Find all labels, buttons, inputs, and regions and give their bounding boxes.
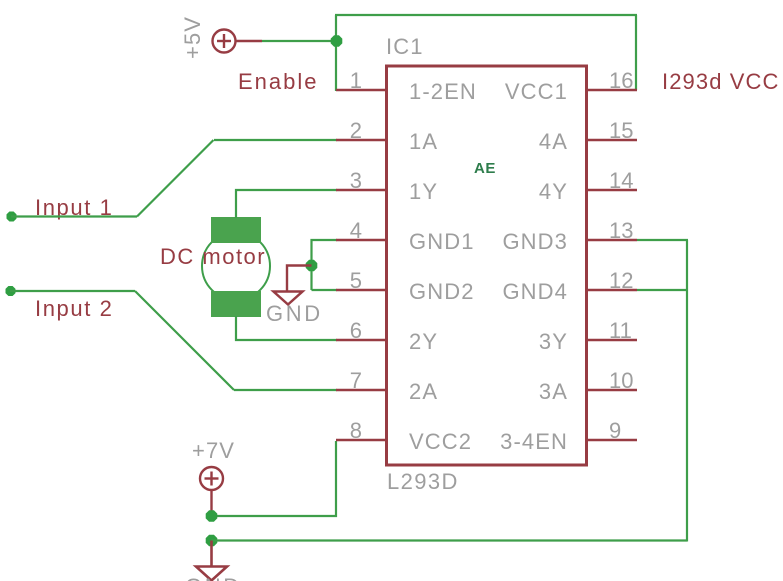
junction at +5V tap — [331, 35, 343, 47]
svg-text:3A: 3A — [539, 379, 568, 404]
svg-text:1A: 1A — [409, 129, 438, 154]
svg-text:L293D: L293D — [387, 469, 459, 494]
svg-text:4Y: 4Y — [539, 179, 568, 204]
svg-text:2Y: 2Y — [409, 329, 438, 354]
svg-text:+7V: +7V — [192, 438, 235, 463]
ground GND1 stub — [287, 266, 312, 292]
pin 10 stub — [588, 389, 637, 391]
motor M1 top terminal block — [211, 217, 261, 243]
pin 8 stub — [336, 439, 385, 441]
svg-text:15: 15 — [609, 118, 633, 143]
svg-text:Input 2: Input 2 — [35, 296, 113, 321]
svg-text:+5V: +5V — [180, 16, 205, 59]
svg-text:3-4EN: 3-4EN — [500, 429, 568, 454]
wire pin 8 down — [211, 441, 336, 516]
wire Input 1 to pin 2 — [214, 139, 337, 141]
svg-text:AE: AE — [474, 160, 496, 177]
svg-text:3: 3 — [350, 168, 362, 193]
junction GND tap — [306, 260, 318, 272]
ground GND1 symbol — [274, 292, 303, 305]
junction +7V tap — [206, 510, 218, 522]
svg-text:5: 5 — [350, 268, 362, 293]
svg-text:16: 16 — [609, 68, 633, 93]
wire pin 4 to junction — [312, 240, 338, 290]
svg-text:14: 14 — [609, 168, 633, 193]
svg-text:1Y: 1Y — [409, 179, 438, 204]
node Input 2 — [6, 286, 16, 296]
ground bottom stub — [210, 541, 213, 567]
wire top rail — [335, 14, 637, 16]
svg-text:GND: GND — [185, 574, 242, 581]
pin 12 stub — [588, 289, 637, 291]
pin 7 stub — [336, 389, 385, 391]
svg-text:GND3: GND3 — [502, 229, 568, 254]
svg-text:8: 8 — [350, 418, 362, 443]
svg-text:4A: 4A — [539, 129, 568, 154]
wire Input 1 horizontal — [11, 215, 137, 217]
svg-text:13: 13 — [609, 218, 633, 243]
svg-text:3Y: 3Y — [539, 329, 568, 354]
svg-text:GND4: GND4 — [502, 279, 568, 304]
svg-text:2: 2 — [350, 118, 362, 143]
ground bottom symbol — [196, 567, 227, 581]
pin 11 stub — [588, 339, 637, 341]
op IC1 body L293D — [387, 66, 587, 465]
svg-text:9: 9 — [609, 418, 621, 443]
pin 13 stub — [588, 239, 637, 241]
svg-text:11: 11 — [609, 318, 632, 343]
motor M1 bottom terminal block — [211, 291, 261, 317]
node Input 1 — [7, 212, 17, 222]
svg-text:10: 10 — [609, 368, 633, 393]
pin 6 stub — [336, 339, 385, 341]
pin 15 stub — [588, 139, 637, 141]
svg-text:VCC2: VCC2 — [409, 429, 472, 454]
wire motor bottom to pin 6 — [236, 316, 337, 340]
svg-text:2A: 2A — [409, 379, 438, 404]
svg-text:DC motor: DC motor — [160, 244, 266, 269]
svg-text:6: 6 — [350, 318, 362, 343]
pin 9 stub — [588, 439, 637, 441]
motor M1 body circle — [202, 232, 270, 300]
pin 14 stub — [588, 189, 637, 191]
wire pin 13 to ground rail — [637, 239, 688, 241]
wire Input 2 horizontal — [10, 290, 135, 292]
supply +7V symbol P2 — [200, 467, 223, 516]
wire junction to pin 5 — [312, 289, 338, 291]
wire +5V to junction — [262, 40, 337, 42]
svg-text:I293d VCC: I293d VCC — [662, 69, 780, 94]
svg-text:GND1: GND1 — [409, 229, 475, 254]
wire vertical at x=336 from top rail to pin 1 — [335, 15, 337, 91]
svg-text:4: 4 — [350, 218, 362, 243]
svg-text:7: 7 — [350, 368, 362, 393]
svg-text:GND2: GND2 — [409, 279, 475, 304]
svg-text:1: 1 — [350, 68, 362, 93]
pin 16 stub — [588, 89, 637, 91]
svg-text:1-2EN: 1-2EN — [409, 79, 477, 104]
svg-text:GND: GND — [266, 301, 323, 326]
pin 4 stub — [336, 239, 385, 241]
pin 3 stub — [336, 189, 385, 191]
svg-text:12: 12 — [609, 268, 633, 293]
wire pin 12 to ground rail — [637, 289, 688, 291]
svg-text:Enable: Enable — [238, 69, 319, 94]
wire motor top to pin 3 — [236, 190, 337, 218]
pin 2 stub — [336, 139, 385, 141]
pin 5 stub — [336, 289, 385, 291]
wire right vertical ground rail — [686, 240, 688, 542]
pin 1 stub — [336, 89, 385, 91]
wire Input 2 diagonal — [135, 291, 234, 390]
svg-text:VCC1: VCC1 — [505, 79, 568, 104]
svg-text:IC1: IC1 — [386, 34, 424, 59]
wire Input 1 diagonal — [137, 140, 214, 217]
wire bottom ground rail — [212, 539, 688, 541]
wire vertical down to pin 16 — [635, 15, 637, 90]
wire Input 2 to pin 7 — [234, 389, 337, 391]
junction bottom ground tap — [206, 535, 218, 547]
supply +5V symbol P1 — [213, 30, 263, 53]
